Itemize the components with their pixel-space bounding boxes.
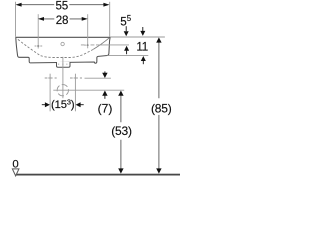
dimension 28: arrows <box>38 17 44 21</box>
dimension 5.5: up arrow <box>124 46 129 51</box>
dimension 55: arrows <box>16 3 22 7</box>
floor line <box>15 174 180 176</box>
tap hole left (cross) with 28-dimension extension line <box>35 14 43 48</box>
dimension 55: line <box>20 4 105 6</box>
bowl contour solid segment near right rim <box>93 38 109 50</box>
fixing hole left (cross) with 15.3-dimension extension line <box>45 74 57 112</box>
fixing hole right (cross) with 15.3-dimension extension line <box>70 74 82 112</box>
trap outlet (dashed circle) <box>57 85 68 96</box>
dimension (53): arrows <box>118 91 123 96</box>
dimension (85): arrows <box>156 37 161 42</box>
dimension 28: line <box>43 18 83 20</box>
fixing holes height line <box>85 77 111 79</box>
vertical center line of drain <box>62 57 64 98</box>
tap deck line / 5.5 extension line <box>81 44 129 46</box>
dimension (7): up arrow <box>102 91 107 96</box>
washbasin outline (front view) <box>16 37 110 63</box>
drain flange center marks <box>58 63 67 65</box>
svg-text:(153): (153) <box>51 98 75 112</box>
svg-text:(7): (7) <box>98 101 113 115</box>
dimension (15.3): extension arrows <box>45 102 50 107</box>
dimension (7): down arrow <box>104 71 106 73</box>
trap horizontal center line <box>53 89 124 91</box>
svg-text:55: 55 <box>56 0 69 12</box>
basin top extension line (right) <box>110 36 165 38</box>
svg-text:11: 11 <box>136 41 148 54</box>
dimension (53): line <box>120 96 122 169</box>
dimension 11: down arrow <box>142 27 144 31</box>
dimension 55: extension lines <box>15 2 17 37</box>
hidden bowl contour (dashed) <box>18 39 93 57</box>
drain flange below basin <box>57 62 71 67</box>
overflow hole <box>61 42 64 45</box>
tap hole right (cross) with 28-dimension extension line <box>84 14 88 48</box>
dimension 11: up arrow <box>141 56 146 61</box>
dimension (85): line <box>158 43 160 169</box>
svg-text:(53): (53) <box>111 124 132 138</box>
basin bottom-right extension line (11 bottom) <box>107 55 148 57</box>
svg-text:(85): (85) <box>151 101 172 115</box>
svg-text:28: 28 <box>56 14 69 27</box>
datum triangle <box>12 169 19 176</box>
dimension 5.5: down arrow <box>125 26 127 31</box>
